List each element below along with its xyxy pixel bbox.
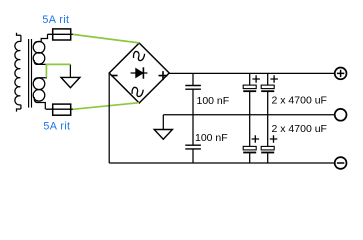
svg-text:100 nF: 100 nF: [195, 132, 228, 144]
green wire center tap vertical jog: [45, 64, 47, 78]
svg-text:5A rit: 5A rit: [42, 14, 69, 26]
terminal middle circle: [335, 109, 347, 121]
capacitor C1 plates: [185, 86, 201, 90]
wire secondary1 top lead to fuse F1: [34, 34, 48, 44]
fuse F1 lead line: [48, 33, 74, 35]
transformer T1 secondary winding 2 loop b: [33, 90, 45, 102]
capacitor C2 100nF lower leads: [192, 115, 194, 163]
wire top rail: [169, 72, 335, 74]
svg-text:5A rit: 5A rit: [43, 121, 70, 133]
svg-text:2 x 4700 uF: 2 x 4700 uF: [272, 123, 327, 135]
transformer T1 secondary winding 1 loop b: [33, 53, 45, 65]
green wire fuse F1 to bridge top: [73, 34, 140, 43]
fuse F2 body: [53, 104, 71, 115]
capacitor C6 electrolytic lower-right leads: [267, 115, 269, 163]
bridge D1 AC tilde top: [134, 51, 145, 60]
green wire center tap horizontal: [46, 63, 71, 65]
capacitor C1 100nF upper leads: [192, 73, 194, 114]
ground GND1 triangle: [61, 77, 80, 87]
terminal plus circle: [335, 68, 347, 80]
green wire fuse F2 to bridge bottom: [73, 103, 139, 110]
transformer T1 primary winding: [15, 35, 21, 109]
capacitor C6 bottom plate: [261, 152, 274, 154]
ground GND2 stem: [162, 115, 164, 130]
terminal minus sign: [337, 162, 344, 164]
wire secondary2 top lead: [34, 78, 47, 81]
capacitor C3 plus sign: [252, 75, 260, 83]
bridge D1 diode cathode bar: [142, 67, 144, 78]
wire bottom rail: [109, 162, 335, 164]
wire secondary2 bottom lead to fuse F2: [34, 97, 45, 109]
transformer T1 primary top pin: [17, 33, 21, 36]
capacitor C4 electrolytic upper-right leads: [267, 73, 269, 114]
bridge rectifier D1 diamond: [109, 43, 169, 103]
capacitor C4 plus sign: [270, 75, 278, 83]
fuse F2 lead line: [46, 108, 73, 110]
capacitor C5 plus sign: [252, 135, 260, 143]
wire middle rail: [163, 114, 334, 116]
bridge D1 plus sign: [159, 71, 168, 80]
capacitor C2 plates: [185, 145, 201, 149]
wire bridge left vertex down: [108, 73, 110, 163]
ground GND2 triangle: [154, 130, 172, 140]
svg-text:2 x 4700 uF: 2 x 4700 uF: [272, 95, 327, 107]
capacitor C4 bottom plate: [261, 90, 274, 92]
capacitor C6 top plate rect: [261, 146, 274, 150]
capacitor C5 top plate rect: [243, 146, 256, 150]
capacitor C6 plus sign: [270, 135, 278, 143]
terminal plus sign: [337, 70, 344, 77]
bridge D1 diode triangle: [136, 69, 143, 78]
transformer T1 core line right: [31, 39, 33, 108]
svg-text:100 nF: 100 nF: [197, 95, 230, 107]
transformer T1 secondary winding 2 loop a: [33, 78, 45, 90]
transformer T1 core line left: [28, 39, 30, 108]
wire secondary1 bottom lead (center tap): [34, 60, 46, 64]
capacitor C5 bottom plate: [243, 152, 256, 154]
bridge D1 minus sign: [111, 75, 118, 77]
capacitor C5 electrolytic lower-left leads: [249, 115, 251, 163]
bridge D1 diode line: [131, 72, 148, 74]
transformer T1 secondary winding 1 loop a: [33, 42, 45, 54]
capacitor C3 top plate rect: [243, 85, 256, 89]
terminal minus circle: [335, 157, 347, 169]
bridge D1 AC tilde bottom: [132, 87, 143, 96]
transformer T1 primary bottom pin: [17, 109, 21, 112]
fuse F1 body: [53, 29, 71, 40]
capacitor C4 top plate rect: [261, 85, 274, 89]
capacitor C3 electrolytic upper-left leads: [249, 73, 251, 114]
capacitor C3 bottom plate: [243, 90, 256, 92]
ground GND1 stem: [69, 64, 71, 77]
